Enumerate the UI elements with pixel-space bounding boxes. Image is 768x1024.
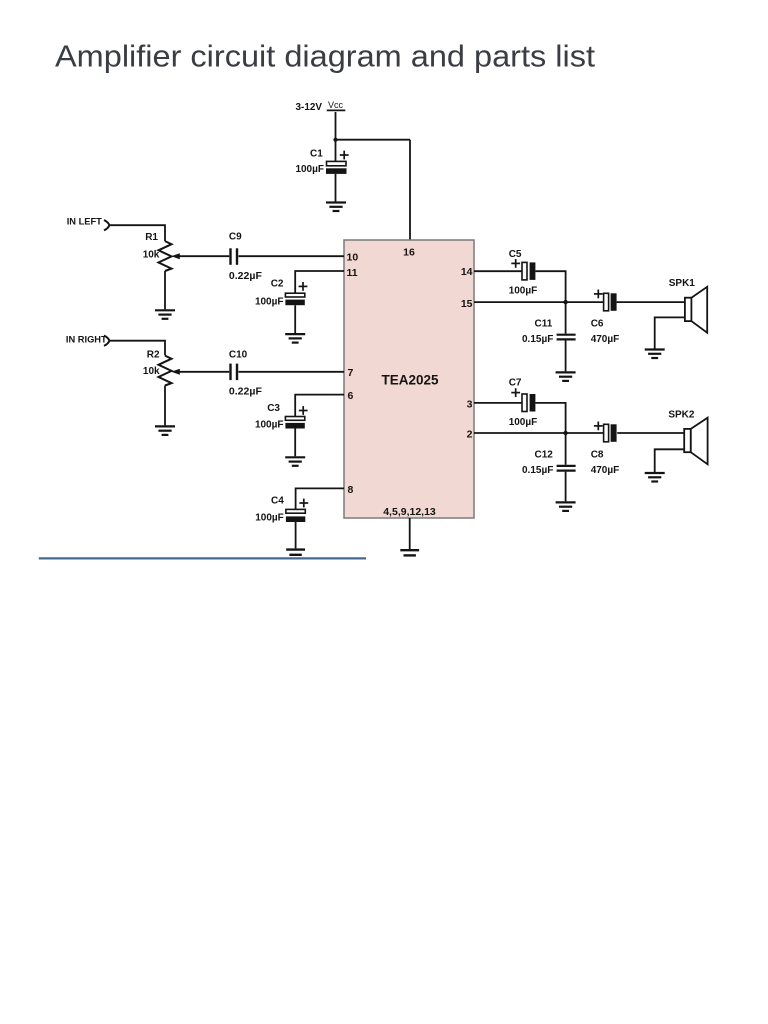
wire C6 to SPK1 (617, 301, 685, 303)
wire C7 to junction (535, 403, 565, 433)
svg-text:0.22µF: 0.22µF (229, 271, 262, 282)
ground C4 (286, 550, 305, 555)
wire C9 to pin 10 (239, 255, 345, 257)
wire pin 8 stub (296, 488, 344, 509)
svg-text:14: 14 (461, 266, 473, 278)
wire pin 15 to C6 (474, 301, 604, 303)
svg-text:C3: C3 (267, 403, 280, 414)
wire SPK1 to ground (655, 317, 685, 348)
wire C12 to ground (565, 472, 567, 502)
wire pin 14 to C5 (474, 270, 522, 272)
capacitor C10 (231, 364, 238, 381)
capacitor C1 (326, 161, 347, 174)
wire Vcc rail to pin16 drop (336, 139, 411, 141)
wire junction to C1 (335, 140, 337, 162)
potentiometer R1 (159, 241, 172, 271)
capacitor C8 (604, 424, 617, 442)
svg-text:C11: C11 (535, 318, 553, 329)
svg-text:SPK1: SPK1 (669, 278, 696, 289)
capacitor C6 (604, 293, 617, 311)
svg-text:C8: C8 (591, 450, 604, 461)
wire pin 11 stub (295, 271, 344, 293)
potentiometer R2 (159, 356, 172, 386)
wire Vcc down to junction (335, 112, 337, 140)
plus sign C3 (299, 406, 308, 415)
svg-text:100µF: 100µF (255, 420, 284, 431)
svg-text:0.15µF: 0.15µF (522, 334, 553, 345)
ground C11 (556, 372, 576, 381)
svg-text:TEA2025: TEA2025 (381, 372, 439, 387)
wire down to pin 16 (409, 140, 411, 240)
svg-text:7: 7 (348, 367, 354, 379)
IC U1 TEA2025 (344, 240, 474, 518)
svg-text:0.15µF: 0.15µF (522, 465, 553, 476)
svg-text:C1: C1 (310, 148, 323, 159)
svg-text:3-12V: 3-12V (296, 102, 323, 113)
wire junction to C11 (565, 302, 567, 334)
input connector right (104, 336, 109, 346)
wire wiper to C9 (178, 255, 229, 257)
svg-text:Vcc: Vcc (328, 100, 344, 110)
svg-text:C10: C10 (229, 350, 248, 361)
wire C11 to ground (565, 341, 567, 372)
wire junction to C12 (565, 433, 567, 465)
svg-text:Amplifier circuit diagram and: Amplifier circuit diagram and parts list (55, 40, 596, 74)
wire R2 to ground (164, 386, 166, 426)
svg-text:0.22µF: 0.22µF (229, 387, 262, 398)
svg-text:100µF: 100µF (255, 513, 284, 524)
speaker SPK1 (685, 287, 707, 333)
wire R1 to ground (164, 271, 166, 309)
ground SPK2 (645, 473, 665, 482)
junction dot node A (563, 300, 567, 304)
plus sign C1 (340, 151, 349, 160)
wiper arrow R2 (171, 369, 180, 375)
wire IC bottom to ground (409, 518, 411, 549)
junction dot node B (563, 431, 567, 435)
svg-text:R1: R1 (145, 232, 158, 243)
wire C5 to junction (535, 271, 565, 302)
junction dot Vcc node (333, 138, 337, 142)
svg-text:C5: C5 (509, 249, 522, 260)
svg-text:R2: R2 (147, 350, 160, 361)
input connector left (104, 220, 109, 230)
Vcc supply symbol (327, 100, 346, 110)
svg-text:6: 6 (348, 390, 354, 402)
wire pin 6 stub (295, 395, 344, 417)
wire C8 to SPK2 (617, 432, 684, 434)
plus sign C6 (594, 290, 603, 299)
horizontal rule blue (39, 557, 366, 559)
ground SPK1 (645, 350, 665, 359)
plus sign C2 (299, 282, 308, 291)
wire C4 to ground (295, 522, 297, 548)
svg-text:10k: 10k (143, 250, 160, 261)
svg-text:C2: C2 (271, 279, 284, 290)
svg-text:C12: C12 (535, 450, 554, 461)
ground C1 (326, 203, 346, 212)
capacitor C3 (285, 417, 304, 429)
svg-text:15: 15 (461, 298, 473, 310)
svg-text:470µF: 470µF (591, 334, 620, 345)
svg-text:C6: C6 (591, 318, 604, 329)
svg-text:11: 11 (347, 267, 358, 279)
plus sign C7 (511, 388, 520, 397)
ground IC (400, 550, 419, 555)
wire C3 to ground (294, 429, 296, 457)
capacitor C9 (231, 248, 238, 264)
svg-text:16: 16 (403, 246, 415, 258)
capacitor C2 (285, 293, 304, 305)
ground R1 (155, 310, 175, 319)
wire pin 2 to C8 (474, 432, 604, 434)
svg-text:IN LEFT: IN LEFT (67, 216, 102, 226)
capacitor C5 (522, 262, 535, 280)
svg-text:10: 10 (347, 251, 359, 263)
wire wiper to C10 (178, 371, 229, 373)
ground C2 (285, 334, 305, 343)
svg-text:470µF: 470µF (591, 465, 620, 476)
svg-text:SPK2: SPK2 (668, 409, 695, 420)
wire C2 to ground (294, 305, 296, 333)
capacitor C12 (557, 466, 576, 471)
svg-text:4,5,9,12,13: 4,5,9,12,13 (383, 506, 436, 518)
svg-text:8: 8 (348, 484, 354, 496)
capacitor C4 (286, 509, 305, 522)
svg-text:100µF: 100µF (295, 164, 324, 175)
svg-text:2: 2 (467, 429, 473, 441)
svg-text:C4: C4 (271, 496, 284, 507)
wire C10 to pin 7 (239, 371, 345, 373)
svg-text:100µF: 100µF (255, 296, 284, 307)
wire input right to R2 (109, 341, 165, 356)
plus sign C8 (594, 422, 603, 431)
wire pin 3 to C7 (474, 402, 522, 404)
plus sign C5 (511, 259, 520, 268)
svg-text:10k: 10k (143, 366, 160, 377)
ground R2 (155, 426, 175, 435)
plus sign C4 (299, 499, 308, 508)
speaker SPK2 (684, 418, 707, 465)
svg-text:C7: C7 (509, 378, 522, 389)
capacitor C7 (522, 394, 535, 412)
svg-text:IN RIGHT: IN RIGHT (66, 335, 107, 345)
svg-text:100µF: 100µF (509, 286, 538, 297)
wire SPK2 to ground (655, 449, 685, 472)
svg-text:100µF: 100µF (509, 417, 538, 428)
ground C3 (285, 457, 305, 466)
capacitor C11 (557, 335, 576, 340)
wire input left to R1 (109, 225, 165, 241)
wiper arrow R1 (171, 253, 180, 259)
svg-text:C9: C9 (229, 231, 242, 242)
svg-text:3: 3 (467, 399, 473, 411)
wire C1 to ground (335, 174, 337, 202)
ground C12 (556, 502, 576, 511)
